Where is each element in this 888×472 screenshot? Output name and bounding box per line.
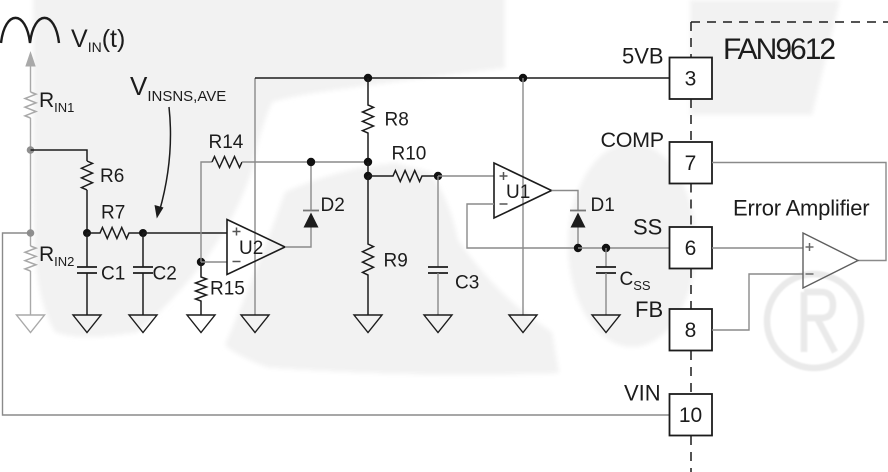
top rail to 5VB	[255, 77, 670, 79]
ground (input rail)	[17, 315, 45, 333]
wire to U1 + input	[438, 175, 494, 177]
capacitor C3	[428, 176, 448, 315]
wire	[367, 162, 369, 176]
svg-text:6: 6	[685, 237, 697, 260]
ground (R9)	[354, 315, 382, 333]
svg-text:R6: R6	[100, 166, 124, 187]
wire to U2 + input	[143, 232, 227, 234]
svg-text:U1: U1	[506, 182, 530, 203]
wire COMP to error amp output	[712, 163, 886, 261]
node C2	[139, 229, 147, 237]
svg-text:C1: C1	[101, 264, 125, 285]
ground (CSS)	[592, 315, 620, 333]
svg-text:VIN: VIN	[624, 381, 661, 406]
node R8 bottom	[364, 158, 372, 166]
wire D1 anode	[577, 228, 579, 249]
node C3	[434, 172, 442, 180]
wire SS to error amp + input	[712, 247, 803, 249]
svg-text:FAN9612: FAN9612	[723, 33, 835, 66]
ground (C2)	[129, 315, 157, 333]
op-amp error amplifier	[803, 233, 858, 288]
resistor R6	[82, 161, 93, 233]
wire	[30, 271, 32, 315]
pin 6 box	[670, 227, 713, 269]
capacitor C1	[77, 233, 97, 315]
svg-text:Error Amplifier: Error Amplifier	[733, 196, 869, 221]
AC source VIN(t) rectified sine	[1, 18, 59, 43]
svg-text:C2: C2	[153, 264, 177, 285]
pin 3 box	[670, 58, 713, 100]
svg-text:D1: D1	[591, 195, 615, 216]
node U2 inverting input	[197, 258, 205, 266]
input arrow	[25, 51, 35, 92]
resistor R10	[368, 171, 438, 182]
svg-text:C3: C3	[455, 273, 479, 294]
svg-text:R9: R9	[384, 251, 408, 272]
supply rail through U2	[254, 78, 256, 315]
svg-text:SS: SS	[633, 215, 662, 240]
resistor R15	[196, 262, 207, 315]
resistor RIN1	[25, 92, 36, 118]
node left rail / VIN sense	[27, 229, 35, 237]
svg-text:R7: R7	[101, 203, 125, 224]
capacitor C2	[133, 233, 153, 315]
node R9/R10	[364, 172, 372, 180]
svg-text:8: 8	[685, 319, 697, 342]
SS wire to pin 6	[578, 247, 670, 249]
svg-text:D2: D2	[321, 195, 345, 216]
resistor R7	[87, 228, 143, 239]
wire D2 cathode	[310, 162, 312, 211]
ground (R15)	[187, 315, 215, 333]
capacitor CSS	[596, 248, 616, 315]
op-amp U1	[494, 163, 552, 218]
node D1 anode / SS	[574, 244, 582, 252]
resistor R9	[363, 176, 374, 315]
pin 10 box	[670, 394, 713, 436]
svg-text:COMP: COMP	[601, 128, 664, 152]
pin 8 box	[670, 309, 713, 351]
node R7/C1	[83, 229, 91, 237]
ground (C1)	[73, 315, 101, 333]
diode D2	[303, 211, 319, 228]
wire U1 output to D1	[552, 191, 579, 211]
svg-text:R10: R10	[392, 144, 427, 165]
svg-text:10: 10	[679, 404, 702, 427]
ground (C3)	[424, 315, 452, 333]
diode D1	[570, 211, 586, 228]
svg-text:R15: R15	[210, 279, 245, 300]
resistor R14	[212, 157, 242, 168]
svg-text:3: 3	[685, 68, 697, 91]
node R8 top	[364, 74, 372, 82]
wire VIN sense to pin 10	[3, 233, 670, 415]
node CSS	[602, 244, 610, 252]
wire U2 inverting input	[201, 261, 227, 263]
ground (U2 rail)	[241, 315, 269, 333]
node left rail / R6	[27, 146, 35, 154]
pin 7 box	[670, 142, 713, 184]
resistor R8	[363, 78, 374, 162]
wire U2 output to D2	[285, 228, 311, 248]
annotation arrow	[160, 107, 171, 211]
node D2 feedback	[307, 158, 315, 166]
wire FB to error amp - input	[712, 274, 803, 330]
ground (U1 rail)	[509, 315, 537, 333]
wire R14 left leg	[201, 162, 212, 262]
wire left rail	[30, 118, 32, 246]
svg-text:R8: R8	[385, 110, 409, 131]
wire to R6	[31, 150, 88, 161]
node U1 rail top	[519, 74, 527, 82]
svg-text:5VB: 5VB	[622, 44, 664, 69]
resistor RIN2	[25, 246, 36, 271]
op-amp U2	[227, 220, 285, 275]
svg-text:U2: U2	[239, 238, 263, 259]
svg-text:R14: R14	[209, 132, 244, 153]
supply rail through U1	[522, 78, 524, 315]
svg-text:FB: FB	[635, 297, 663, 322]
wire U1 feedback loop	[467, 204, 578, 248]
svg-text:7: 7	[685, 152, 697, 175]
wire R14 to R8 node	[242, 161, 368, 163]
IC boundary dashed outline	[691, 22, 888, 472]
